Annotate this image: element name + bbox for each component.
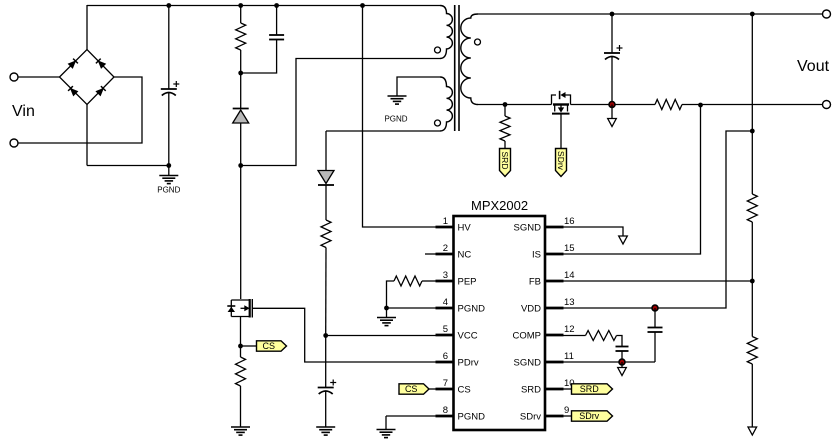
svg-text:PEP: PEP	[458, 277, 477, 288]
SGND arrow (pin 11)	[618, 368, 627, 376]
SDrv net flag (pin 9)	[572, 411, 613, 421]
wire	[240, 6, 242, 24]
COMP capacitor	[616, 347, 629, 352]
wire	[564, 361, 656, 363]
label Vin	[12, 103, 35, 120]
node	[166, 163, 171, 168]
PGND ground (winding 2)	[384, 96, 407, 124]
wire	[240, 73, 242, 109]
SRD gate resistor	[500, 116, 510, 141]
svg-text:8: 8	[443, 405, 448, 416]
ground	[377, 318, 396, 326]
node	[384, 306, 389, 311]
svg-text:FB: FB	[529, 277, 541, 288]
wire	[564, 388, 572, 390]
node	[503, 102, 508, 107]
wire	[386, 415, 436, 417]
wire	[168, 166, 170, 176]
svg-text:14: 14	[564, 270, 575, 281]
svg-text:Vin: Vin	[12, 103, 35, 120]
svg-text:15: 15	[564, 243, 575, 254]
wire	[168, 93, 170, 166]
wire	[325, 336, 327, 388]
svg-text:SGND: SGND	[514, 358, 542, 369]
svg-text:SGND: SGND	[514, 223, 542, 234]
node	[274, 3, 279, 8]
node	[238, 3, 243, 8]
node	[750, 279, 755, 284]
svg-text:2: 2	[443, 243, 448, 254]
svg-text:CS: CS	[405, 384, 418, 394]
svg-text:SDrv: SDrv	[579, 411, 599, 421]
startup resistor	[321, 220, 331, 248]
wire	[564, 227, 624, 236]
node	[750, 12, 755, 17]
svg-text:COMP: COMP	[513, 331, 542, 342]
transformer primary winding 2	[435, 77, 453, 131]
SR MOSFET Q2	[552, 91, 571, 114]
wire	[564, 105, 701, 254]
wire	[240, 317, 242, 347]
SRD net flag (pin 10)	[572, 384, 613, 394]
wire	[240, 50, 242, 73]
node	[238, 163, 243, 168]
wire	[240, 386, 242, 427]
CS net flag	[257, 341, 287, 351]
wire	[560, 114, 562, 149]
wire	[621, 362, 623, 368]
wire	[654, 308, 656, 328]
transformer primary winding 1	[435, 6, 453, 59]
wire	[504, 105, 506, 117]
wire	[240, 346, 242, 357]
wire	[682, 104, 823, 106]
ground	[377, 430, 396, 438]
svg-text:VCC: VCC	[458, 331, 478, 342]
node	[619, 359, 625, 365]
wire	[617, 336, 623, 347]
svg-text:CS: CS	[263, 341, 276, 351]
svg-text:PGND: PGND	[157, 186, 180, 195]
svg-text:MPX2002: MPX2002	[471, 198, 528, 213]
wire	[241, 345, 257, 347]
SGND arrow (divider)	[748, 427, 757, 435]
SGND arrow (pin 16)	[619, 236, 628, 244]
wire	[326, 130, 440, 132]
wire	[564, 131, 753, 308]
snubber capacitor	[269, 35, 284, 40]
svg-text:PGND: PGND	[458, 412, 486, 423]
wire	[18, 76, 60, 78]
wire	[429, 388, 436, 390]
transformer secondary winding	[461, 14, 481, 105]
snubber resistor	[236, 23, 246, 50]
node	[166, 3, 171, 8]
wire	[325, 248, 327, 336]
svg-text:PGND: PGND	[384, 115, 407, 124]
bridge rectifier	[60, 50, 115, 105]
wire	[363, 6, 454, 228]
svg-text:9: 9	[564, 405, 569, 416]
node	[238, 344, 243, 349]
CS sense resistor	[236, 357, 246, 386]
snubber diode	[233, 109, 249, 124]
node	[698, 103, 703, 108]
svg-text:SRD: SRD	[521, 385, 541, 396]
wire	[387, 281, 395, 308]
wire	[751, 14, 753, 194]
node	[323, 333, 328, 338]
IC U1 MPX2002 body	[454, 198, 546, 430]
node	[750, 129, 755, 134]
svg-text:11: 11	[564, 351, 574, 362]
wire	[621, 351, 623, 362]
wire	[241, 59, 440, 166]
wire	[276, 6, 278, 36]
wire	[86, 142, 88, 144]
wire	[564, 335, 586, 337]
node	[610, 12, 615, 17]
svg-text:13: 13	[564, 297, 575, 308]
wire	[478, 104, 552, 106]
svg-text:7: 7	[443, 378, 448, 389]
wire	[564, 280, 753, 282]
startup diode	[318, 171, 334, 186]
CS net flag (pin 7)	[399, 384, 429, 394]
wire	[751, 281, 753, 337]
wire	[241, 40, 277, 74]
wire	[478, 13, 823, 15]
svg-text:CS: CS	[458, 385, 471, 396]
svg-text:3: 3	[443, 270, 448, 281]
current sense resistor	[655, 100, 682, 110]
wire	[326, 335, 436, 337]
IC pins right	[513, 216, 575, 423]
wire	[387, 307, 436, 309]
svg-text:VDD: VDD	[521, 304, 541, 315]
MOSFET Q1	[227, 299, 252, 318]
node	[360, 3, 365, 8]
svg-text:16: 16	[564, 216, 575, 227]
wire	[325, 391, 327, 427]
wire	[386, 308, 388, 318]
svg-text:SRD: SRD	[580, 384, 600, 394]
svg-text:PDrv: PDrv	[458, 358, 479, 369]
wire	[422, 280, 436, 282]
VCC capacitor	[318, 380, 337, 395]
transformer core	[455, 5, 459, 131]
wire	[252, 308, 453, 362]
feedback divider upper resistor	[747, 194, 757, 222]
output terminal Vout+	[823, 10, 831, 18]
node	[609, 102, 615, 108]
wire	[87, 165, 169, 167]
wire	[240, 123, 242, 166]
SGND arrow (output)	[608, 119, 617, 127]
svg-text:IS: IS	[532, 250, 541, 261]
node	[238, 71, 243, 76]
input terminal Vin+	[10, 73, 18, 81]
svg-text:1: 1	[443, 216, 448, 227]
svg-text:4: 4	[443, 297, 448, 308]
IC pins left	[436, 216, 486, 423]
output terminal Vout-	[823, 101, 831, 109]
wire	[325, 185, 327, 220]
label Vout	[797, 58, 830, 75]
COMP resistor	[586, 331, 617, 341]
PGND ground	[157, 176, 180, 195]
wire	[86, 5, 88, 50]
svg-text:6: 6	[443, 351, 448, 362]
wire	[240, 166, 242, 300]
PEP resistor	[394, 276, 422, 286]
output capacitor	[604, 45, 623, 60]
wire	[18, 77, 142, 143]
ground	[316, 427, 335, 435]
wire	[86, 105, 88, 166]
node VDD	[652, 305, 658, 311]
wire	[751, 364, 753, 427]
svg-text:SDrv: SDrv	[520, 412, 541, 423]
svg-text:NC: NC	[458, 250, 472, 261]
wire	[87, 5, 440, 7]
wire	[751, 222, 753, 281]
svg-text:HV: HV	[458, 223, 472, 234]
VDD capacitor	[648, 328, 663, 333]
wire	[611, 57, 613, 105]
wire	[385, 416, 387, 430]
wire	[325, 131, 327, 171]
svg-text:SDrv: SDrv	[556, 151, 566, 171]
svg-text:Vout: Vout	[797, 58, 830, 75]
wire	[564, 415, 572, 417]
wire	[611, 14, 613, 53]
wire	[571, 104, 656, 106]
SRD net flag	[500, 149, 511, 177]
svg-text:5: 5	[443, 324, 448, 335]
feedback divider lower resistor	[747, 337, 757, 365]
input terminal Vin-	[10, 139, 18, 147]
wire	[611, 105, 613, 119]
svg-text:12: 12	[564, 324, 575, 335]
ground	[231, 427, 250, 435]
wire	[504, 141, 506, 149]
wire	[168, 6, 170, 90]
wire	[654, 332, 656, 362]
wire	[397, 77, 440, 96]
SDrv net flag	[556, 149, 567, 177]
svg-text:PGND: PGND	[458, 304, 486, 315]
wire pin2 NC	[425, 253, 436, 255]
svg-text:SRD: SRD	[500, 152, 510, 170]
input bulk capacitor	[161, 81, 180, 96]
